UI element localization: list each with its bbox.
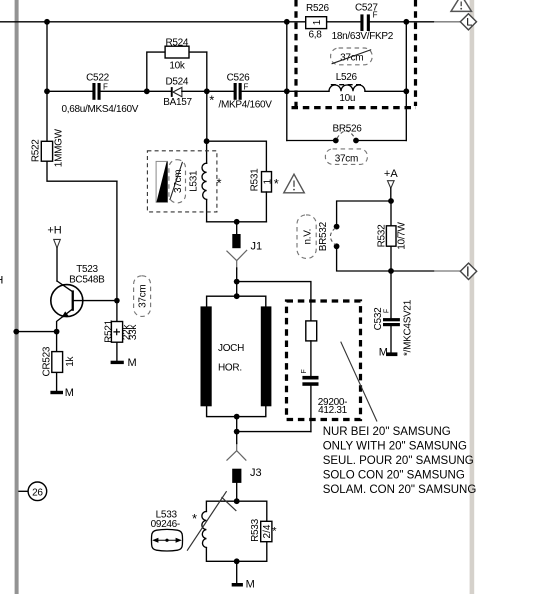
- svg-text:1: 1: [263, 178, 274, 184]
- node: yoke bottom junction: [234, 414, 240, 420]
- wire: bottom bus to 20-inch block: [237, 431, 311, 433]
- dashed block border (top, C527/L526 block): [292, 0, 417, 108]
- svg-text:1MMGW: 1MMGW: [53, 128, 64, 167]
- node: junction on line A at x=406.3: [403, 19, 409, 25]
- svg-text:R532: R532: [376, 224, 387, 247]
- svg-text:26: 26: [32, 487, 43, 498]
- wire: L531/R531 bottom link: [207, 221, 267, 223]
- wire: vertical x=206.8 from R524 through line B down: [206, 52, 208, 141]
- svg-text:M: M: [128, 357, 137, 369]
- svg-text:J3: J3: [250, 467, 262, 479]
- svg-text:37cm: 37cm: [138, 285, 149, 308]
- resistor R526: [306, 3, 330, 40]
- capacitor C527: [332, 2, 394, 41]
- wire: line A from R526 to C527: [327, 21, 361, 23]
- wire: emitter line to page edge: [16, 331, 56, 333]
- part number label 29200-412.31: [318, 397, 348, 416]
- connector J1: [227, 222, 263, 282]
- width-adjust icon (ellipse with arrows): [151, 529, 182, 551]
- note capsule 37cm crossed (top block): [331, 48, 373, 65]
- resistor (20-inch block): [306, 321, 317, 376]
- resistor R522 1M: [30, 91, 116, 181]
- svg-text:HOR.: HOR.: [218, 362, 242, 373]
- svg-text:BR532: BR532: [318, 221, 329, 251]
- node: junction below J1: [234, 279, 240, 285]
- resistor CR523 1k: [41, 332, 76, 391]
- svg-text:R533: R533: [250, 518, 261, 541]
- deflection dashed outline box: [147, 151, 217, 212]
- wire: J1 to yoke: [236, 282, 238, 297]
- node: junction line B x=47: [44, 88, 50, 94]
- wire: tank circuit loop: [206, 501, 266, 561]
- node: junction line B x=206.8: [204, 88, 210, 94]
- node: yoke top junction: [234, 293, 240, 299]
- diode D524 BA157: [163, 76, 233, 108]
- wire: line B from L526 to x=406.3: [365, 90, 406, 92]
- svg-text:C532: C532: [373, 307, 384, 330]
- svg-text:F: F: [244, 83, 249, 92]
- note text NUR BEI 20in SAMSUNG: [323, 426, 477, 496]
- svg-text:M: M: [246, 578, 255, 590]
- ground M (C532): [379, 347, 398, 359]
- callout line to note text: [341, 342, 377, 422]
- node: tank bottom junction: [234, 558, 240, 564]
- node: bottom bus junction: [234, 429, 240, 435]
- inductor L531: [188, 141, 206, 222]
- resistor R531 1: [250, 168, 274, 222]
- transistor T523 BC548B: [51, 264, 117, 332]
- svg-text:6,8: 6,8: [308, 30, 322, 41]
- svg-text:n.V.: n.V.: [303, 229, 314, 245]
- note capsule 37cm (below BR526): [325, 149, 367, 165]
- svg-text:10u: 10u: [339, 93, 355, 104]
- node: tank top junction: [234, 498, 240, 504]
- svg-text:+A: +A: [384, 168, 398, 180]
- ground M (tank): [232, 561, 255, 590]
- svg-text:R524: R524: [165, 37, 188, 48]
- svg-text:0,68u/MKS4/160V: 0,68u/MKS4/160V: [62, 104, 139, 115]
- wire: vertical x=47 from line A to line B: [46, 22, 48, 92]
- svg-text:R522: R522: [30, 139, 41, 162]
- svg-text:M: M: [379, 347, 388, 359]
- left page-edge strip: [15, 0, 19, 594]
- resistor R521 22k/33k: [103, 319, 139, 360]
- svg-text:*: *: [209, 93, 214, 108]
- svg-text:1: 1: [312, 19, 323, 25]
- ground M (CR523): [50, 387, 74, 399]
- resistor R532 10/7W: [376, 201, 407, 271]
- node marker: circled 26: [19, 482, 47, 501]
- svg-text:BC548B: BC548B: [69, 275, 105, 286]
- ground M (R521): [111, 357, 137, 369]
- node: base junction x=116.9: [114, 298, 120, 304]
- node: junction line B x=286.8: [284, 88, 290, 94]
- wire: top bus line A y=21.8: [0, 21, 306, 23]
- svg-text:F: F: [383, 309, 390, 313]
- node: junction line B x=406.3: [403, 88, 409, 94]
- svg-text:412.31: 412.31: [318, 405, 348, 416]
- svg-text:L526: L526: [336, 72, 358, 83]
- node: junction below R532: [388, 268, 394, 274]
- svg-text:10/7W: 10/7W: [397, 221, 408, 249]
- node: junction L531 top: [204, 138, 210, 144]
- note capsule n.V.: [297, 215, 316, 259]
- svg-text:BA157: BA157: [163, 97, 192, 108]
- svg-text:NUR BEI 20" SAMSUNG: NUR BEI 20" SAMSUNG: [323, 426, 451, 438]
- svg-text:L531: L531: [188, 170, 199, 192]
- node: +A junction: [388, 198, 394, 204]
- warning triangle (near R531): [284, 174, 305, 193]
- resistor R524: [147, 37, 207, 91]
- wire: to connector I: [391, 270, 434, 272]
- svg-text:SEUL. POUR 20" SAMSUNG: SEUL. POUR 20" SAMSUNG: [323, 455, 474, 467]
- node: emitter junction: [54, 329, 60, 335]
- wire: yoke bottom to bottom bus: [236, 417, 238, 432]
- svg-text:*: *: [217, 175, 222, 190]
- wire: line B from C522 to D524: [101, 90, 171, 92]
- node: junction on line A at x=47: [44, 19, 50, 25]
- inductor L533 (adjustable): [151, 491, 237, 551]
- svg-text:37cm: 37cm: [335, 153, 358, 164]
- svg-text:M: M: [65, 387, 74, 399]
- svg-text:H: H: [0, 274, 3, 286]
- node: junction below L531: [234, 219, 240, 225]
- svg-text:JOCH: JOCH: [218, 343, 244, 354]
- wire: vertical x=286.8 (BR526 loop left): [286, 22, 288, 141]
- capacitor C526: [219, 73, 273, 111]
- warning triangle (top right, clipped): [451, 0, 472, 11]
- bridge BR532 (not fitted): [318, 201, 391, 271]
- wire: branch to 20-inch block: [237, 282, 311, 321]
- capacitor C522: [62, 73, 139, 115]
- wire: line B from x=47 to C522: [47, 90, 92, 92]
- node: junction on line A at x=286.8: [284, 19, 290, 25]
- svg-text:F: F: [103, 83, 108, 92]
- connector J3: [227, 432, 262, 502]
- svg-text:BR526: BR526: [332, 124, 362, 135]
- svg-text:+H: +H: [47, 225, 61, 237]
- svg-text:F: F: [373, 11, 378, 20]
- svg-text:09246-: 09246-: [151, 519, 180, 530]
- wire: vertical x=406.3 (BR526 loop right): [405, 22, 407, 141]
- svg-text:18n/63V/FKP2: 18n/63V/FKP2: [332, 31, 394, 42]
- svg-text:*: *: [272, 526, 277, 538]
- note capsule 37cm (near R521): [134, 276, 151, 317]
- svg-text:10k: 10k: [169, 61, 186, 72]
- wire: vertical x=116.9 to transistor base: [116, 181, 118, 321]
- wire: gray lead into connector L: [434, 21, 460, 23]
- svg-text:CR523: CR523: [41, 346, 52, 376]
- wire: line B from C526 into dashed block: [242, 90, 329, 92]
- svg-text:33k: 33k: [128, 324, 139, 341]
- svg-text:J1: J1: [251, 240, 263, 252]
- capacitor C532: [373, 271, 414, 356]
- dashed block border (20-inch only block): [287, 301, 361, 420]
- supply +H: [47, 225, 61, 281]
- right page-edge strip: [470, 0, 475, 594]
- svg-text:F: F: [301, 369, 308, 373]
- resistor R533 2/4: [250, 518, 277, 541]
- svg-text:*: *: [274, 176, 279, 191]
- svg-text:D524: D524: [165, 76, 188, 87]
- bridge BR526: [287, 124, 407, 144]
- capacitor (20-inch block): [301, 369, 318, 431]
- svg-text:*/MKC4SV21: */MKC4SV21: [403, 299, 414, 356]
- svg-text:R526: R526: [306, 3, 329, 14]
- node: junction line B x=146.8: [144, 88, 150, 94]
- svg-text:/MKP4/160V: /MKP4/160V: [219, 100, 273, 111]
- node: page-edge terminal: [13, 329, 19, 335]
- svg-text:SOLAM. CON 20" SAMSUNG: SOLAM. CON 20" SAMSUNG: [323, 484, 477, 496]
- svg-text:ONLY WITH 20" SAMSUNG: ONLY WITH 20" SAMSUNG: [323, 441, 467, 453]
- svg-text:T523: T523: [76, 264, 98, 275]
- svg-text:R521: R521: [103, 319, 114, 342]
- svg-text:*: *: [192, 511, 197, 526]
- inductor L526 10u: [329, 72, 365, 104]
- note capsule 37cm crossed (L531): [169, 160, 186, 203]
- svg-text:1k: 1k: [65, 356, 76, 367]
- wire: L531/R531 top link: [207, 141, 267, 171]
- svg-text:SOLO CON 20" SAMSUNG: SOLO CON 20" SAMSUNG: [323, 470, 465, 482]
- connector diamond L (line A, right edge): [460, 14, 476, 30]
- transformer JOCH HOR (yoke): [201, 296, 272, 416]
- supply +A: [384, 168, 398, 201]
- svg-text:L: L: [466, 16, 472, 28]
- wire: line A from C527 to right: [370, 21, 434, 23]
- connector diamond I (right edge): [460, 263, 476, 279]
- svg-text:R531: R531: [250, 168, 261, 191]
- sawtooth wedge icon: [156, 161, 167, 202]
